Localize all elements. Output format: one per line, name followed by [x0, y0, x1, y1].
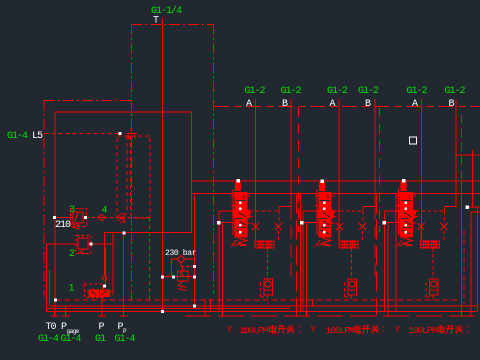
- wire: bus y311: [47, 311, 478, 313]
- unloading valve 1 body: [87, 288, 113, 299]
- wire: bus y308: [47, 308, 291, 310]
- node valve1 top: [237, 179, 241, 183]
- reducing valve 2: [78, 238, 88, 249]
- node 230bar pilot: [193, 265, 196, 268]
- node valve3 top: [402, 179, 406, 183]
- svg-text:210: 210: [55, 220, 71, 231]
- label 电开关2: [354, 325, 361, 333]
- node check1: [103, 285, 106, 288]
- wire: long horizontal rail y181: [192, 180, 480, 182]
- wire: left short vertical: [49, 270, 51, 306]
- accumulator dashed box: [117, 136, 150, 218]
- wire: bus y306: [50, 305, 478, 307]
- reducing valve 2 dashed enclosure: [76, 236, 91, 254]
- wire: A3 drop: [421, 99, 423, 241]
- svg-text:G1-2: G1-2: [281, 86, 302, 97]
- wire: to valve 3: [55, 217, 73, 219]
- port tick Pgage: [62, 307, 70, 317]
- wire: dashed drop right of accumulator: [149, 218, 151, 300]
- proportional valve group 1: [219, 180, 291, 316]
- relief valve 3: [73, 212, 83, 223]
- wire: left frame verticals: [46, 244, 48, 312]
- proportional valve group 3: [384, 180, 456, 316]
- svg-text:G1-4: G1-4: [115, 334, 136, 345]
- svg-text:L5: L5: [32, 131, 43, 142]
- node valve2 top: [321, 180, 325, 184]
- wire: long horizontal rail y194: [192, 193, 480, 195]
- svg-text:100LPM: 100LPM: [408, 325, 438, 336]
- wire: right edge drop: [472, 150, 474, 208]
- svg-text:G1-2: G1-2: [327, 86, 348, 97]
- manifold boundary box (dash-dot): [44, 24, 214, 300]
- node group2 left: [300, 221, 304, 225]
- check valve 4 diamond: [97, 214, 107, 220]
- wire: pilot dash to diamond: [181, 263, 194, 267]
- port tick P: [98, 315, 106, 317]
- wire: A/B top port line (long dash): [214, 106, 480, 108]
- port tick Pp: [120, 315, 128, 317]
- label 电开关3: [438, 325, 445, 333]
- svg-text:230 bar: 230 bar: [165, 249, 197, 258]
- label 电开关1: [270, 325, 277, 333]
- node group4 left: [466, 206, 470, 210]
- wire: B1 companion dash-dot: [298, 107, 300, 232]
- proportional valve group 2: [303, 180, 375, 316]
- node T drain bus: [161, 310, 164, 313]
- wire: A2 drop: [338, 99, 340, 241]
- svg-text:G1-2: G1-2: [358, 86, 379, 97]
- relief valve 230bar body: [178, 271, 189, 281]
- svg-text:T0: T0: [46, 322, 57, 333]
- svg-text:G1-4: G1-4: [38, 334, 59, 345]
- wire: Pp feed: [123, 233, 125, 316]
- wire: B2 companion dash-dot: [379, 107, 381, 232]
- svg-text:100LPM: 100LPM: [326, 325, 356, 336]
- pilot fitting with cross: [118, 214, 126, 222]
- wire: bottom long-dash y316: [185, 315, 480, 317]
- wire: B2 drop: [374, 99, 376, 206]
- svg-text:G1: G1: [95, 334, 106, 345]
- node on y233: [123, 232, 126, 235]
- wire: T drain main vertical: [162, 18, 164, 312]
- wire: pump pressure line y233: [105, 233, 192, 277]
- wire: B3 drop: [455, 99, 457, 206]
- svg-text:G1-2: G1-2: [245, 86, 266, 97]
- node L5 tap: [119, 132, 122, 135]
- node valve3 in: [53, 216, 56, 219]
- unloading valve 1 dashed enclosure: [85, 284, 103, 298]
- wire: LS dotted line L5: [45, 133, 121, 135]
- node pump P: [193, 304, 196, 307]
- wire: LS drain dashed y300: [56, 299, 461, 301]
- port tick T0: [51, 312, 59, 317]
- wire: pilot dashed from valve 3: [86, 217, 151, 219]
- node group3 left: [383, 221, 387, 225]
- relief valve 3 dashed enclosure: [71, 209, 87, 227]
- svg-text:G1-4: G1-4: [61, 334, 82, 345]
- wire: right-side rails ends: [477, 207, 479, 311]
- wire: mid verticals: [204, 299, 206, 316]
- wire: P stub: [101, 296, 103, 316]
- wire: supply line y244: [47, 243, 79, 245]
- node group1 left: [217, 221, 221, 225]
- node 230bar right: [193, 276, 196, 279]
- relief valve 230bar: diamond: [177, 256, 184, 263]
- node 230bar mid: [172, 276, 175, 279]
- svg-text:G1-2: G1-2: [407, 86, 428, 97]
- fitting at L5 tap: [127, 128, 138, 139]
- wire: right edge segment y155: [455, 154, 480, 156]
- wire: P supply from left box over to valves: [55, 112, 192, 316]
- node valve2 out: [90, 243, 93, 246]
- svg-text:G1-2: G1-2: [445, 86, 466, 97]
- node 230bar left: [161, 276, 164, 279]
- wire: A1 drop: [255, 99, 257, 241]
- node LS left: [54, 299, 57, 302]
- wire: inter-group drop lines set 2: [376, 194, 378, 316]
- partial valve group 4 right edge: [464, 212, 480, 316]
- svg-text:100LPM: 100LPM: [239, 325, 269, 336]
- wire: B1 drop: [290, 99, 292, 206]
- junction nodes (white): [53, 132, 469, 313]
- wire: inter-group drop lines set 1: [296, 194, 298, 316]
- white square marker: [410, 137, 417, 144]
- svg-text:G1-4: G1-4: [7, 131, 28, 142]
- check valve above unit 1: [102, 276, 108, 281]
- node valve3 out: [84, 216, 87, 219]
- wire: 230bar loop: [172, 259, 178, 277]
- wire: B3 companion: [461, 114, 463, 181]
